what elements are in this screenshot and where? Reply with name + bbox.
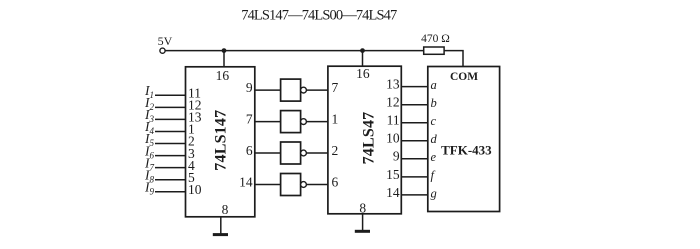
svg-text:8: 8	[359, 200, 366, 215]
wire U1 pin 6 to gate G3	[255, 152, 281, 154]
wire U2 pin 12 to segment b	[401, 104, 428, 106]
wire U2 pin 15 to segment f	[401, 176, 428, 178]
svg-text:16: 16	[216, 68, 230, 83]
ground under U1 pin 8	[213, 217, 228, 235]
G3 output bubble	[301, 150, 307, 156]
svg-text:16: 16	[356, 66, 370, 81]
wire I7 to pin 4	[155, 167, 186, 169]
wire Vcc rail from 5V to resistor	[165, 50, 423, 52]
svg-text:7: 7	[332, 80, 339, 95]
svg-text:a: a	[431, 78, 437, 92]
power terminal 5V	[158, 34, 173, 53]
wire U2 pin 10 to segment d	[401, 140, 428, 142]
svg-text:10: 10	[188, 182, 202, 197]
wire G4 to U2 pin 6	[306, 184, 328, 186]
svg-text:g: g	[431, 186, 437, 200]
junction dot above 74LS47 pin 16	[360, 48, 365, 53]
svg-text:14: 14	[386, 185, 400, 200]
svg-text:11: 11	[387, 113, 400, 128]
G4 output bubble	[301, 182, 307, 188]
wire U2 pin 11 to segment c	[401, 122, 428, 124]
svg-text:f: f	[431, 168, 436, 182]
wire from rail to 74LS47 pin 16	[362, 51, 364, 67]
G2 output bubble	[301, 119, 307, 125]
wire I1 to pin 11	[155, 94, 186, 96]
wire U2 pin 13 to segment a	[401, 86, 428, 88]
svg-text:1: 1	[332, 112, 339, 127]
svg-text:74LS147: 74LS147	[212, 110, 229, 171]
wire U1 pin 9 to gate G1	[255, 89, 281, 91]
svg-text:d: d	[431, 132, 438, 146]
IC U1 74LS147 box	[186, 67, 255, 217]
wire from rail to 74LS147 pin 16	[223, 51, 225, 67]
wire U2 pin 9 to segment e	[401, 158, 428, 160]
svg-text:7: 7	[246, 112, 253, 127]
inverter gate G3 (74LS00)	[281, 142, 301, 164]
svg-text:74LS47: 74LS47	[361, 112, 378, 165]
wire G3 to U2 pin 2	[306, 152, 328, 154]
G1 output bubble	[301, 87, 307, 93]
wire U2 pin 14 to segment g	[401, 194, 428, 196]
inverter gate G1 (74LS00)	[281, 79, 301, 101]
wire G2 to U2 pin 1	[306, 121, 328, 123]
wire I8 to pin 5	[155, 179, 186, 181]
svg-text:15: 15	[386, 167, 400, 182]
wire I9 to pin 10	[155, 191, 186, 193]
junction dot above 74LS147 pin 16	[222, 48, 227, 53]
svg-text:6: 6	[246, 143, 253, 158]
svg-text:74LS147—74LS00—74LS47: 74LS147—74LS00—74LS47	[241, 8, 397, 24]
svg-text:9: 9	[246, 80, 253, 95]
svg-text:13: 13	[386, 77, 400, 92]
wire I6 to pin 3	[155, 155, 186, 157]
svg-text:6: 6	[332, 175, 339, 190]
wire G1 to U2 pin 7	[306, 89, 328, 91]
svg-text:b: b	[431, 96, 437, 110]
wire U1 pin 14 to gate G4	[255, 184, 281, 186]
svg-text:10: 10	[386, 131, 400, 146]
wire I3 to pin 13	[155, 118, 186, 120]
wire I4 to pin 1	[155, 131, 186, 133]
svg-text:2: 2	[332, 143, 339, 158]
wire U1 pin 7 to gate G2	[255, 121, 281, 123]
inverter gate G4 (74LS00)	[281, 174, 301, 196]
svg-text:e: e	[431, 150, 437, 164]
svg-text:5V: 5V	[158, 34, 173, 48]
svg-text:8: 8	[222, 202, 229, 217]
resistor 470 ohm	[424, 47, 444, 54]
IC U2 74LS47 box	[328, 66, 401, 214]
svg-text:COM: COM	[450, 71, 478, 83]
svg-text:TFK-433: TFK-433	[441, 142, 492, 157]
svg-text:14: 14	[239, 175, 253, 190]
inverter gate G2 (74LS00)	[281, 111, 301, 133]
svg-text:12: 12	[386, 95, 400, 110]
wire I2 to pin 12	[155, 106, 186, 108]
ground under U2 pin 8	[355, 214, 370, 232]
svg-text:c: c	[431, 114, 437, 128]
wire from resistor to display COM pin	[444, 51, 463, 67]
display TFK-433 box	[428, 67, 500, 212]
svg-text:9: 9	[393, 149, 400, 164]
wire I5 to pin 2	[155, 143, 186, 145]
svg-text:470 Ω: 470 Ω	[421, 33, 450, 45]
